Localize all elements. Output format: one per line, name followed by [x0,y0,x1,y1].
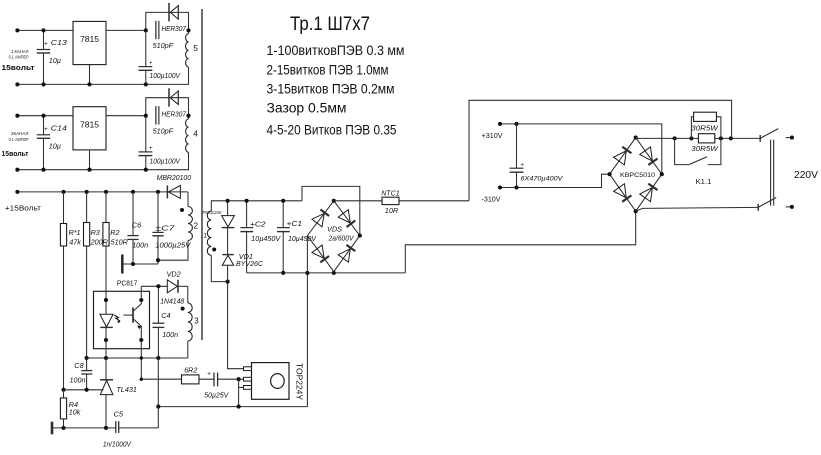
capacitor 50u25V [213,373,215,387]
capacitor 510pF #1 [155,21,157,39]
wire mains bottom [636,207,759,211]
wire mains top [334,200,382,202]
capacitor C13 10u [43,30,45,49]
wire secondary common [123,263,158,265]
diode HER307 #2 [168,88,170,107]
diode VD2 1N4148 [167,280,177,293]
thermistor NTC1 10R [382,197,399,204]
svg-text:47k: 47k [69,238,81,247]
svg-text:5: 5 [193,43,198,53]
diode MBR20100 [166,185,168,198]
bridge VDS diode top-left [312,213,324,226]
winding 2 [187,192,189,207]
svg-text:6R2: 6R2 [184,366,197,375]
resistor 30R5W upper [691,117,693,139]
svg-text:NTC1: NTC1 [381,189,400,198]
svg-text:1N4148: 1N4148 [160,296,185,305]
wire 7815 #2 gnd pin [89,150,91,170]
svg-text:K1.1: K1.1 [696,177,712,186]
svg-text:P6KE200: P6KE200 [202,210,221,216]
wire -310V [500,174,610,187]
IC TOP224Y [244,367,252,371]
winding 1 [207,211,211,255]
resistor 30R5W lower [698,134,714,143]
bridge KBPC diode top-right [640,147,653,161]
svg-text:+: + [207,370,211,377]
regulator 7815 #2 [73,107,106,150]
svg-text:1 КАНАЛ: 1 КАНАЛ [11,49,29,54]
svg-text:±C7: ±C7 [155,224,175,233]
svg-text:HER307: HER307 [162,109,187,118]
svg-text:C4: C4 [161,311,170,320]
wire +15V rail [17,191,167,193]
svg-text:10R: 10R [385,206,399,215]
opto pins [104,298,108,302]
transil P6KE200 [227,201,229,216]
svg-text:7815: 7815 [80,119,99,129]
svg-text:100µ100V: 100µ100V [150,157,182,166]
svg-text:VD2: VD2 [167,269,181,278]
svg-text:510pF: 510pF [153,41,174,50]
svg-text:+C1: +C1 [287,219,303,228]
transformer T1 core [201,9,203,340]
svg-text:0.1 АМПЕР: 0.1 АМПЕР [9,137,29,142]
wire winding1 bottom [211,255,227,281]
svg-text:TOP224Y: TOP224Y [294,363,303,401]
svg-text:0.1 АМПЕР: 0.1 АМПЕР [9,55,29,60]
svg-text:10µ450V: 10µ450V [288,234,317,243]
winding 2 polarity dot [180,208,184,212]
svg-text:100n: 100n [162,330,178,339]
capacitor C6 100n [132,192,134,236]
svg-text:+: + [44,126,48,133]
svg-text:+: + [149,61,153,67]
svg-text:10µ450V: 10µ450V [251,234,281,243]
svg-text:220V: 220V [794,170,818,181]
capacitor C8 100n [86,358,88,370]
wire VD2 row [141,285,167,287]
svg-text:1n/1000V: 1n/1000V [103,439,132,448]
capacitor C5 1n/1000V [115,421,117,433]
svg-text:KBPC5010: KBPC5010 [620,172,655,179]
svg-text:3-15витков ПЭВ 0.2мм: 3-15витков ПЭВ 0.2мм [267,82,395,98]
wire ground row [52,427,115,429]
bridge VDS diode top-right [338,210,350,223]
wire relay row [636,137,637,140]
svg-text:50µ25V: 50µ25V [204,390,229,399]
capacitor 6X470u400V [516,124,518,168]
svg-text:200R: 200R [90,238,108,247]
regulator 7815 #1 [73,21,106,64]
svg-text:3: 3 [194,316,198,325]
winding 1 polarity dot [212,248,216,252]
svg-text:C8: C8 [74,361,84,370]
wire output rail 1 bottom [17,83,189,85]
bridge VDS 2a/600V [307,201,359,272]
opto PC817 box [94,291,150,348]
relay contact K1.1 [675,138,689,164]
wire mains overpass [469,100,732,201]
wire output rail 2 top [17,115,73,117]
wire primary return [405,211,635,273]
wire snubber loop 2 [146,98,189,116]
svg-text:+310V: +310V [482,131,503,140]
resistor R*1 47k [63,192,65,224]
TL431 [105,358,107,380]
ground bar [51,422,54,435]
svg-text:2a/600V: 2a/600V [328,234,355,243]
wire control row [141,378,214,380]
svg-text:510pF: 510pF [153,127,174,136]
svg-text:BYV26C: BYV26C [236,259,264,268]
svg-text:100n: 100n [70,375,86,384]
wire source return vertical [157,358,159,428]
wire winding2 bottom [158,241,188,261]
wire source pin [239,386,244,388]
capacitor C14 10u [43,116,45,135]
winding 4 [188,116,190,119]
wire snubber loop 1 [146,12,189,30]
svg-text:PC817: PC817 [117,279,137,288]
node dots rail 2 [15,114,19,118]
switch S1 bottom [757,204,759,211]
resistor R2 510R [105,192,107,223]
svg-text:2: 2 [194,221,198,230]
svg-text:4: 4 [193,128,198,138]
svg-text:+: + [520,162,524,168]
svg-text:100µ100V: 100µ100V [150,71,182,80]
wire source rail [158,406,307,408]
bridge VDS diode bottom-left [312,245,324,258]
svg-text:1-100витковПЭВ 0.3 мм: 1-100витковПЭВ 0.3 мм [267,43,405,59]
svg-text:Зазор 0.5мм: Зазор 0.5мм [267,101,347,117]
capacitor C2 10u450V [246,201,248,227]
svg-text:R2: R2 [110,228,119,237]
wire TL431 ref [64,389,104,391]
svg-text:2КАНАЛ: 2КАНАЛ [11,131,29,136]
svg-text:10k: 10k [69,408,81,417]
svg-text:6X470µ400V: 6X470µ400V [521,176,565,183]
opto phototransistor [132,308,134,323]
svg-text:-310V: -310V [482,194,501,203]
winding 3 polarity dot [181,307,185,311]
svg-text:R3: R3 [91,228,100,237]
svg-text:7815: 7815 [80,34,99,44]
wire primary top [211,201,302,211]
svg-text:R*1: R*1 [69,228,81,237]
svg-text:30R5W: 30R5W [691,126,719,133]
bridge KBPC diode bottom-left [614,184,627,198]
wire output rail 2 bottom [17,169,189,171]
wire primary bottom rail [247,272,406,274]
svg-text:C6: C6 [132,220,142,229]
svg-text:+: + [149,146,153,152]
capacitor 100u100V #1 [145,30,147,66]
diode VD1 BYV26C [222,254,233,256]
resistor 6R2 [182,375,200,384]
svg-text:C14: C14 [51,123,67,132]
wire opto pin3 down [105,340,107,358]
wire drain [228,282,244,369]
wire bridge left corner down [306,236,308,273]
svg-text:C5: C5 [114,410,124,419]
node dots rail 1 [15,28,19,32]
opto LED arrows [114,315,120,321]
svg-text:510R: 510R [111,238,128,247]
svg-text:VDS: VDS [327,225,342,234]
svg-text:MBR20100: MBR20100 [157,173,192,182]
svg-text:2-15витков ПЭВ 1.0мм: 2-15витков ПЭВ 1.0мм [267,63,389,79]
bridge KBPC diode top-left [614,151,627,165]
svg-text:10µ: 10µ [49,56,61,65]
svg-text:15вольт: 15вольт [2,63,35,72]
svg-text:C13: C13 [51,38,67,47]
node dots primary top [226,199,230,203]
switch link [770,140,772,206]
svg-text:1000µ25V: 1000µ25V [155,241,191,250]
opto LED [105,300,107,314]
svg-text:10µ: 10µ [49,141,61,150]
diode HER307 #1 [168,3,170,22]
svg-text:HER307: HER307 [162,24,187,33]
wire output rail 1 top [17,29,73,31]
svg-text:30R5W: 30R5W [691,146,719,153]
svg-text:4-5-20 Витков ПЭВ 0.35: 4-5-20 Витков ПЭВ 0.35 [267,123,397,139]
capacitor 100u100V #2 [145,116,147,152]
svg-text:1: 1 [203,233,207,240]
capacitor C7 1000u25V [157,192,159,232]
svg-text:+C2: +C2 [250,219,266,228]
winding 3 [187,286,189,303]
wire +310V [500,124,662,174]
svg-text:+: + [44,41,48,48]
svg-text:100n: 100n [132,241,148,250]
resistor R4 10k [63,390,65,398]
bridge KBPC diode bottom-right [640,188,653,202]
capacitor C1 10u450V [282,201,284,227]
winding 5 [188,30,190,33]
resistor R3 200R [86,192,88,223]
bridge VDS diode bottom-right [338,249,350,262]
capacitor 510pF #2 [155,106,157,124]
chassis bar secondary [121,255,124,274]
wire feedback common row [87,357,188,359]
wire 7815 #1 gnd pin [89,65,91,85]
svg-text:Тр.1 Ш7х7: Тр.1 Ш7х7 [290,13,370,35]
svg-text:+15Вольт: +15Вольт [5,204,42,213]
switch S1 top [759,135,761,142]
svg-text:TL431: TL431 [116,385,136,394]
bridge KBPC5010 [610,138,662,212]
capacitor C4 100n [156,284,160,288]
wire opto pin4 up [140,286,142,291]
svg-text:15вольт: 15вольт [2,149,29,158]
node dots +15V rail [15,190,19,194]
